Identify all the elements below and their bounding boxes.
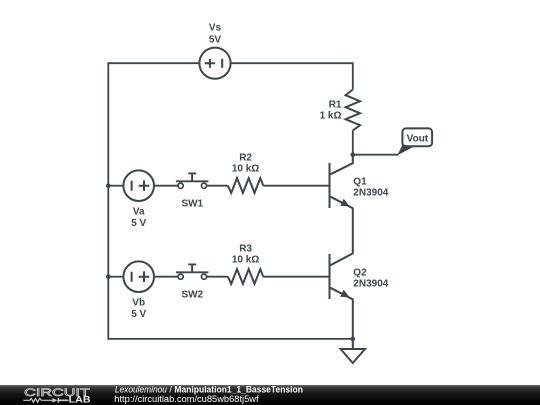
switch SW2	[176, 264, 209, 279]
svg-text:Vout: Vout	[407, 134, 429, 145]
junction dot Vout node	[351, 152, 356, 157]
wire SW1 to R2	[207, 185, 228, 187]
svg-text:Vs: Vs	[209, 23, 222, 34]
wire R2 to Q1 base	[263, 185, 329, 187]
Vout flag tail	[397, 145, 414, 156]
wire top right segment	[230, 63, 352, 89]
voltage source Vb	[123, 261, 154, 292]
logo resistor-diode-LAB	[23, 398, 68, 403]
svg-text:5 V: 5 V	[131, 309, 146, 320]
wire R3 to Q2 base	[263, 276, 329, 278]
svg-text:SW1: SW1	[181, 198, 203, 209]
svg-text:2N3904: 2N3904	[353, 279, 388, 290]
switch SW1	[176, 173, 209, 188]
resistor R3	[228, 269, 263, 284]
resistor R1	[346, 90, 360, 131]
wire Va to SW1	[154, 185, 178, 187]
wire node to Vout	[353, 154, 399, 156]
voltage source Va	[123, 170, 154, 201]
junction dot node A	[106, 183, 111, 188]
wire R1 bottom to node	[352, 131, 354, 155]
svg-text:10 kΩ: 10 kΩ	[232, 255, 259, 266]
svg-text:http://circuitlab.com/cu85wb68: http://circuitlab.com/cu85wb68tj5wf	[114, 394, 259, 404]
svg-text:1 kΩ: 1 kΩ	[320, 111, 342, 122]
wire Vb to SW2	[154, 276, 178, 278]
svg-text:R3: R3	[239, 243, 252, 254]
svg-text:Lexouleminou / Manipulation1_1: Lexouleminou / Manipulation1_1_BasseTens…	[115, 385, 303, 395]
svg-text:Va: Va	[133, 207, 145, 218]
svg-text:LAB: LAB	[69, 395, 91, 405]
svg-text:5 V: 5 V	[131, 218, 146, 229]
junction dot node B	[106, 274, 111, 279]
Q1 emitter arrow	[340, 199, 349, 206]
svg-text:2N3904: 2N3904	[353, 188, 388, 199]
svg-text:Q1: Q1	[353, 176, 367, 187]
svg-text:Vb: Vb	[132, 298, 145, 309]
junction dot ground node	[351, 337, 356, 342]
Q2 emitter arrow	[340, 290, 349, 297]
wire node B to Vb	[108, 276, 123, 278]
voltage source Vs	[199, 48, 230, 79]
transistor Q1	[330, 155, 353, 254]
resistor R2	[228, 178, 263, 193]
wire left vertical with top/bottom corners	[108, 63, 352, 339]
flag Vout	[402, 128, 432, 146]
svg-text:R2: R2	[239, 152, 252, 163]
svg-text:10 kΩ: 10 kΩ	[232, 164, 259, 175]
wire node A to Va	[108, 185, 123, 187]
footer bar	[0, 385, 540, 405]
transistor Q2	[330, 253, 353, 339]
svg-text:Q2: Q2	[353, 267, 367, 278]
ground	[341, 339, 365, 363]
svg-text:SW2: SW2	[181, 289, 203, 300]
wire SW2 to R3	[207, 276, 228, 278]
svg-text:5V: 5V	[209, 35, 222, 46]
svg-text:R1: R1	[329, 100, 342, 111]
